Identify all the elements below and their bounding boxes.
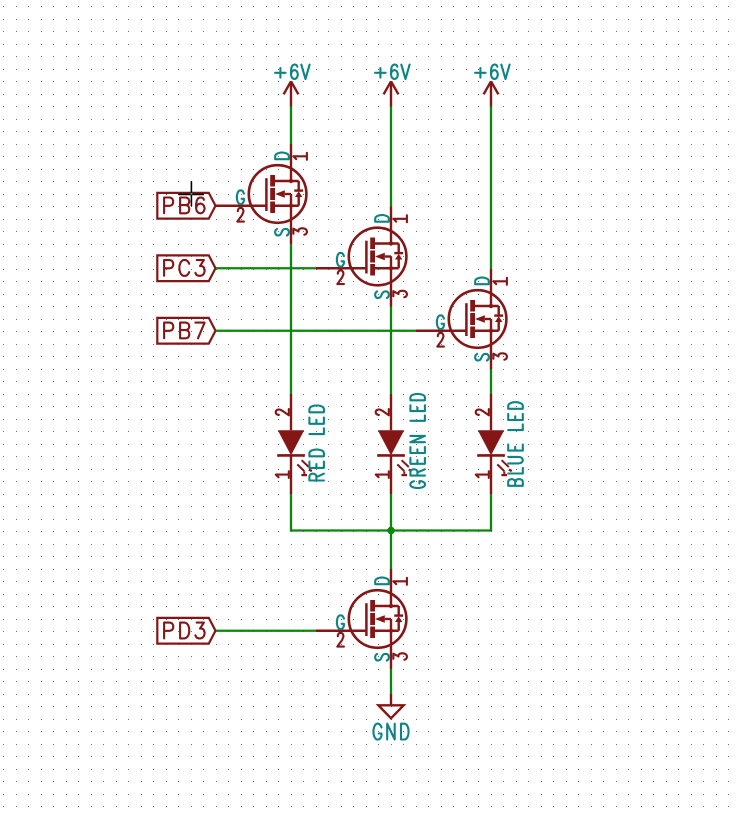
wire bus to Q4 drain [390, 531, 392, 570]
label PB6 [157, 193, 215, 219]
wire +6V P2 to Q2 drain [390, 107, 392, 207]
wire LED D2 cathode to bus [390, 494, 392, 531]
wire PB7 to Q3 gate [216, 330, 416, 332]
LED D1 [276, 394, 312, 494]
wire Q1 source to LED D1 anode [290, 244, 292, 394]
wire PC3 to Q2 gate [216, 267, 316, 269]
cursor crosshair [178, 181, 204, 206]
wire Q2 source to LED D2 anode [390, 307, 392, 395]
value RED LED [309, 406, 324, 481]
power +6V P1 [275, 65, 310, 107]
ground [374, 694, 409, 740]
wire LED D3 cathode to bus [391, 494, 491, 531]
value GREEN LED [410, 394, 425, 488]
wire +6V P3 to Q3 drain [490, 107, 492, 270]
wire LED D1 cathode to bus [291, 494, 391, 531]
label PC3 [157, 255, 215, 281]
junction at bus [387, 527, 395, 535]
transistor Q1 [216, 144, 307, 244]
wire +6V P1 to Q1 drain [290, 107, 292, 145]
transistor Q4 [316, 569, 407, 669]
power +6V P3 [475, 65, 510, 107]
value BLUE LED [508, 402, 523, 486]
transistor Q2 [316, 207, 407, 307]
LED D3 [476, 394, 512, 494]
wire Q4 source to ground [390, 669, 392, 694]
wire Q3 source to LED D3 anode [490, 369, 492, 394]
power +6V P2 [375, 65, 410, 107]
label PB7 [157, 318, 215, 344]
wire PD3 to Q4 gate [216, 630, 316, 632]
LED D2 [376, 394, 412, 494]
transistor Q3 [416, 269, 507, 369]
label PD3 [157, 618, 215, 644]
